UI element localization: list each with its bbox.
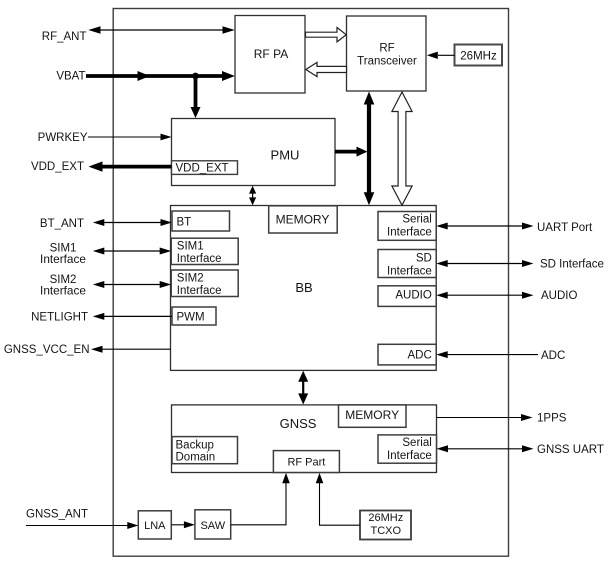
svg-text:Interface: Interface [40, 283, 86, 297]
block BT [172, 211, 230, 231]
svg-text:MEMORY: MEMORY [276, 213, 330, 227]
svg-text:PWRKEY: PWRKEY [38, 132, 88, 144]
node VBAT junction [192, 73, 199, 80]
label GNSS_ANT [26, 509, 88, 521]
label GNSS UART [537, 444, 604, 456]
block ADC (BB) [378, 344, 436, 365]
svg-text:Backup: Backup [176, 440, 214, 452]
svg-text:TCXO: TCXO [371, 525, 402, 537]
wire NETLIGHT from PWM [93, 313, 172, 320]
svg-text:GNSS UART: GNSS UART [537, 444, 604, 456]
svg-text:AUDIO: AUDIO [395, 289, 431, 301]
label BT_ANT [40, 218, 84, 230]
svg-text:GNSS_VCC_EN: GNSS_VCC_EN [4, 344, 90, 356]
wire BT_ANT to BT [93, 219, 172, 226]
wire AUDIO [436, 292, 533, 299]
wire VBAT drop to PMU [191, 76, 201, 118]
svg-text:GNSS_ANT: GNSS_ANT [26, 509, 88, 521]
bus open arrow RF PA to RF Transceiver [306, 28, 347, 42]
svg-text:ADC: ADC [408, 349, 432, 361]
bus open double arrow RF Transceiver and BB [392, 92, 412, 205]
oscillator 26MHz TCXO [360, 511, 411, 540]
svg-text:ADC: ADC [541, 350, 565, 362]
svg-text:RF_ANT: RF_ANT [42, 31, 87, 43]
svg-text:VDD_EXT: VDD_EXT [31, 161, 84, 173]
wire GNSS UART [437, 445, 534, 452]
block PMU [172, 119, 336, 186]
wire thick double arrow RF Transceiver and BB power [364, 92, 375, 206]
label PWRKEY [38, 132, 88, 144]
label UART Port [537, 222, 593, 234]
wire VBAT supply [86, 71, 235, 81]
svg-text:Interface: Interface [40, 252, 86, 266]
svg-text:SAW: SAW [200, 520, 225, 532]
svg-text:SIM2: SIM2 [177, 273, 204, 285]
svg-text:PMU: PMU [271, 148, 300, 163]
svg-text:Interface: Interface [387, 266, 432, 278]
svg-text:MEMORY: MEMORY [345, 408, 399, 422]
wire PMU to power rail [335, 147, 368, 157]
module outer boundary box [113, 9, 508, 557]
svg-text:26MHz: 26MHz [368, 512, 403, 524]
wire VDD_EXT output [89, 161, 172, 171]
label NETLIGHT [31, 312, 88, 324]
label 1PPS [537, 413, 567, 425]
svg-text:SIM1: SIM1 [177, 241, 204, 253]
svg-text:SD: SD [416, 253, 432, 265]
block AUDIO (BB) [378, 286, 436, 307]
wire RF_ANT to RF PA [88, 26, 235, 34]
label VBAT [56, 70, 85, 82]
block Serial Interface (GNSS) [378, 435, 437, 463]
label SIM2 Interface [40, 274, 86, 297]
oscillator 26MHz [455, 45, 503, 66]
label ADC [541, 350, 565, 362]
wire ADC input [436, 351, 538, 358]
block Serial Interface (BB) [378, 212, 436, 241]
svg-text:26MHz: 26MHz [460, 50, 497, 62]
label RF_ANT [42, 31, 87, 43]
block Backup Domain (GNSS) [172, 437, 238, 464]
block SD Interface (BB) [378, 250, 436, 278]
label SD Interface [540, 259, 604, 271]
block SIM1 Interface [171, 238, 238, 265]
svg-text:PWM: PWM [177, 312, 205, 324]
wire 1PPS output [437, 414, 533, 421]
wire SIM1 to BB [93, 248, 171, 255]
block RF Part (GNSS) [273, 451, 339, 473]
block SAW filter [195, 510, 231, 539]
svg-text:LNA: LNA [144, 520, 166, 532]
svg-text:RF: RF [379, 43, 394, 55]
svg-text:VBAT: VBAT [56, 70, 85, 82]
label SIM1 Interface [40, 243, 86, 267]
svg-text:Transceiver: Transceiver [357, 56, 417, 68]
svg-text:GNSS: GNSS [280, 416, 317, 431]
wire GNSS_ANT to LNA [26, 522, 138, 529]
wire SAW to RF Part [231, 473, 290, 525]
svg-text:BT_ANT: BT_ANT [40, 218, 84, 230]
label AUDIO [541, 290, 577, 302]
svg-text:Interface: Interface [387, 226, 432, 238]
block GNSS [172, 405, 437, 473]
svg-text:RF Part: RF Part [287, 457, 325, 469]
block VDD_EXT regulator [172, 161, 238, 175]
svg-text:Interface: Interface [387, 450, 432, 462]
block PWM [172, 307, 216, 325]
svg-text:NETLIGHT: NETLIGHT [31, 312, 88, 324]
svg-text:SD Interface: SD Interface [540, 259, 604, 271]
wire UART to Serial Interface [436, 223, 533, 230]
block RF PA [235, 16, 305, 94]
block BB baseband [171, 206, 437, 371]
block RF Transceiver [347, 16, 427, 91]
svg-text:AUDIO: AUDIO [541, 290, 577, 302]
wire 26MHz to RF Transceiver [427, 52, 455, 59]
svg-text:1PPS: 1PPS [537, 413, 567, 425]
block MEMORY (GNSS) [339, 405, 407, 427]
svg-text:Serial: Serial [402, 437, 431, 449]
wire SD Interface [436, 260, 533, 267]
block MEMORY (BB) [269, 206, 338, 233]
svg-text:Serial: Serial [402, 213, 431, 225]
svg-text:Domain: Domain [176, 452, 216, 464]
wire PMU to BB double arrow [249, 186, 256, 205]
svg-text:Interface: Interface [177, 253, 222, 265]
svg-text:Interface: Interface [177, 285, 222, 297]
svg-text:RF PA: RF PA [254, 47, 288, 61]
svg-text:BT: BT [177, 217, 192, 229]
svg-text:UART Port: UART Port [537, 222, 593, 234]
label VDD_EXT [31, 161, 84, 173]
wire GNSS_VCC_EN from BB [91, 346, 171, 353]
wire PWRKEY to PMU [88, 134, 172, 141]
block LNA [138, 511, 171, 539]
wire BB to GNSS double arrow [298, 371, 308, 405]
bus open arrow RF Transceiver to RF PA [306, 62, 347, 76]
svg-text:VDD_EXT: VDD_EXT [176, 163, 229, 175]
block SIM2 Interface [171, 270, 238, 297]
svg-text:BB: BB [295, 280, 312, 295]
label GNSS_VCC_EN [4, 344, 90, 356]
wire SIM2 to BB [93, 281, 171, 288]
wire TCXO to RF Part [316, 473, 360, 525]
wire LNA to SAW [171, 521, 195, 528]
